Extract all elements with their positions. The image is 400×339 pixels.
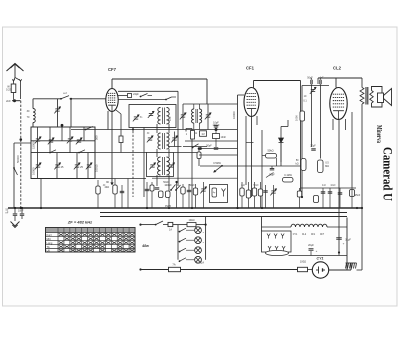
- svg-text:100Ω: 100Ω: [300, 260, 306, 264]
- wire det row: [199, 148, 238, 150]
- junction dot: [20, 138, 23, 141]
- svg-text:Kurz: Kurz: [47, 233, 53, 237]
- wire CF7 g2 tap: [118, 95, 128, 97]
- wire lamp top: [139, 224, 141, 226]
- cap 100pF: [155, 187, 160, 189]
- switch S3: [85, 129, 87, 131]
- wire T columns: [156, 124, 158, 133]
- wire lamp right col: [205, 217, 207, 260]
- svg-text:10pF: 10pF: [213, 121, 219, 124]
- pin CF7 g3: [111, 112, 113, 186]
- heater pair symbols top: [267, 234, 270, 239]
- svg-text:25nF: 25nF: [355, 194, 361, 197]
- resistor h15: [254, 182, 256, 208]
- wire CF7 g3 tap: [118, 99, 166, 101]
- svg-text:10nF: 10nF: [221, 136, 227, 139]
- wire lamp left col: [177, 225, 179, 260]
- svg-text:UK: UK: [47, 249, 51, 253]
- wire lamp top2: [173, 224, 187, 226]
- wire coil to box: [32, 123, 34, 128]
- cap 50pF drv: [310, 80, 312, 85]
- band switch dashed line: [132, 112, 134, 197]
- wire CL2 plate rail: [318, 77, 362, 79]
- heater chain row: [262, 226, 292, 228]
- fuse F1: [163, 224, 168, 226]
- svg-text:CF7: CF7: [108, 67, 117, 72]
- resistor o2b: [314, 196, 319, 203]
- box h12: [210, 185, 228, 203]
- variable capacitor C2d: [87, 164, 91, 166]
- svg-text:Camerad U: Camerad U: [381, 147, 396, 201]
- wire T1 top: [144, 107, 157, 109]
- svg-text:50000: 50000: [16, 155, 20, 163]
- switch S5: [192, 147, 194, 149]
- trimmer C t8: [207, 104, 209, 130]
- wire col 144: [143, 128, 145, 198]
- variable capacitor C1c: [68, 138, 72, 140]
- rail junction dots: [20, 207, 22, 209]
- lamp branch 1: [179, 231, 181, 233]
- variable capacitor C2a: [36, 164, 40, 166]
- svg-text:10015: 10015: [95, 164, 99, 172]
- junction 339-252: [338, 251, 340, 253]
- wire mid link: [95, 152, 147, 154]
- junction gl: [14, 207, 16, 209]
- wire CL2 plate: [335, 78, 337, 88]
- diode D1: [281, 126, 288, 128]
- wire AVC: [71, 129, 237, 131]
- wire box to rail: [40, 179, 42, 209]
- cap h17: [265, 185, 267, 208]
- rail third: [100, 216, 347, 218]
- svg-text:50nF: 50nF: [189, 185, 195, 187]
- ground rail main: [8, 207, 362, 209]
- tube CF7: [106, 89, 118, 112]
- svg-text:0.5MΩ: 0.5MΩ: [213, 162, 221, 165]
- trimmer C t5: [150, 164, 154, 166]
- lamp branch 2: [179, 241, 181, 243]
- resistor 10nF box: [215, 130, 217, 134]
- variable capacitor C1d: [77, 139, 81, 141]
- svg-text:31μF: 31μF: [345, 239, 351, 242]
- tuning box verticals: [37, 127, 39, 179]
- wire drv col2: [320, 84, 322, 158]
- pin CF1 3: [256, 116, 258, 125]
- svg-text:10nF: 10nF: [18, 210, 24, 213]
- switch S4: [175, 189, 177, 191]
- svg-text:15000: 15000: [32, 141, 36, 149]
- speaker LS1: [372, 87, 383, 108]
- wire rail drop left: [7, 207, 9, 209]
- svg-text:50nF: 50nF: [163, 181, 169, 184]
- wire col 169 ext: [168, 197, 170, 208]
- ground symbol GND1: [11, 222, 20, 227]
- IF transformer T1: [158, 108, 161, 125]
- svg-text:CF7: CF7: [320, 234, 325, 236]
- svg-text:10kΩ: 10kΩ: [189, 219, 195, 222]
- rail second: [100, 212, 347, 214]
- cap h9: [188, 184, 190, 208]
- resistor 50k: [266, 154, 277, 159]
- wire antenna split: [14, 78, 16, 84]
- pin CF7 aux: [116, 110, 121, 114]
- trimmer C t2: [134, 116, 138, 118]
- cap o1: [321, 191, 326, 193]
- wire mains: [139, 268, 141, 270]
- cap h5: [146, 182, 148, 208]
- resistor 0.5M: [318, 160, 324, 173]
- pot arrow: [311, 88, 315, 90]
- varcap T2 right: [174, 132, 176, 147]
- wire CF1 plate rail: [254, 80, 301, 82]
- ground symbol GND2 (chassis): [350, 263, 352, 270]
- cap 50pF out: [311, 148, 316, 150]
- svg-text:100: 100: [168, 116, 172, 121]
- wire CF7 plate up: [111, 79, 113, 89]
- wire out row: [301, 187, 357, 189]
- cap 10pF: [214, 125, 219, 127]
- switch S2: [13, 167, 15, 169]
- wire col 347 top: [346, 208, 348, 218]
- svg-text:CY1: CY1: [317, 257, 324, 261]
- svg-text:+: +: [316, 249, 318, 253]
- resistor o3: [350, 190, 355, 197]
- cap gl2: [21, 208, 23, 213]
- svg-text:Minerva: Minerva: [375, 125, 384, 143]
- component blob: [61, 124, 64, 127]
- svg-text:24pF: 24pF: [133, 93, 139, 96]
- arrow pin end: [111, 183, 114, 185]
- cap h19: [299, 188, 301, 208]
- resistor r2: [166, 191, 171, 198]
- wire osc link: [185, 140, 238, 142]
- heater box: [262, 231, 292, 252]
- varcap h18: [273, 185, 275, 208]
- svg-text:10000: 10000: [232, 111, 236, 119]
- IF transformer T3: [158, 157, 161, 175]
- cap h16: [260, 182, 262, 208]
- switch S6 volume: [221, 165, 223, 167]
- wire osc top: [183, 103, 238, 105]
- resistor h14: [248, 182, 250, 208]
- resistor 0.1M: [283, 178, 294, 183]
- trimmer C t3: [149, 112, 153, 114]
- svg-text:48w: 48w: [141, 244, 149, 248]
- svg-text:CL2: CL2: [333, 66, 342, 71]
- svg-text:CF1: CF1: [311, 234, 316, 236]
- svg-text:500: 500: [95, 135, 99, 140]
- resistor h13: [241, 182, 243, 208]
- svg-text:50pF: 50pF: [206, 144, 212, 147]
- antenna coil L1: [33, 109, 35, 123]
- svg-text:Mitt: Mitt: [47, 237, 51, 241]
- wire antenna down: [13, 93, 15, 100]
- antenna A1: [7, 64, 24, 72]
- resistor osc: [191, 131, 195, 140]
- wire plate rail CF7: [112, 78, 207, 80]
- wire grid branch: [70, 99, 72, 130]
- variable capacitor C2b: [55, 164, 59, 166]
- svg-text:CY1: CY1: [293, 234, 298, 236]
- varcap h11: [203, 182, 205, 208]
- fuse W0.25: [11, 84, 16, 93]
- svg-text:2nF: 2nF: [6, 99, 11, 103]
- svg-text:ZF = 482 kHz: ZF = 482 kHz: [67, 220, 92, 225]
- resistor h1: [97, 180, 99, 208]
- svg-text:0.25: 0.25: [6, 88, 12, 92]
- wire drv col1: [311, 84, 313, 147]
- switch on divider b: [79, 150, 85, 153]
- cap h3: [121, 185, 123, 208]
- frequency table: [46, 228, 136, 253]
- lamp branch 3: [179, 251, 181, 253]
- svg-text:4μF: 4μF: [241, 185, 246, 187]
- svg-text:MΩ: MΩ: [325, 165, 329, 168]
- cap o2c: [338, 192, 343, 194]
- ballast ellipse: [266, 250, 289, 255]
- svg-text:50kΩ: 50kΩ: [267, 149, 273, 153]
- tuning box mid rail: [31, 152, 95, 154]
- wire col 352: [351, 112, 353, 188]
- svg-text:+0.02A: +0.02A: [196, 262, 204, 265]
- wire col 199: [198, 148, 200, 166]
- svg-text:+: +: [343, 242, 345, 246]
- svg-text:50pF: 50pF: [307, 77, 313, 80]
- resistor 50kOut: [301, 159, 306, 171]
- wire psu mid: [289, 255, 348, 257]
- osc transformer T4: [192, 109, 194, 123]
- cap 4nF drv: [319, 80, 321, 85]
- pin CL2 2: [338, 120, 340, 253]
- heater pair symbols bottom: [268, 246, 271, 251]
- wire psu right col: [346, 218, 348, 270]
- tube CF1: [244, 88, 259, 117]
- pin CF7 k: [107, 111, 109, 130]
- speaker coil primary: [361, 78, 363, 88]
- wire long AF: [200, 165, 301, 167]
- resistor 1M: [200, 131, 207, 137]
- wire comp col: [215, 139, 217, 148]
- fuse 7A: [169, 267, 181, 271]
- tuning box outline: [31, 127, 95, 179]
- wire corner left: [32, 99, 34, 109]
- svg-text:7A: 7A: [172, 263, 175, 267]
- svg-text:TA: TA: [47, 245, 50, 249]
- wire CF1 plate up: [253, 81, 255, 88]
- variable capacitor C1b: [49, 139, 53, 141]
- wire input to CF7 grid: [70, 98, 106, 100]
- svg-text:a 2: a 2: [63, 92, 67, 95]
- svg-text:4nF: 4nF: [319, 77, 324, 80]
- IF transformer T2: [158, 133, 161, 149]
- junction dot 357: [356, 207, 358, 209]
- variable capacitor C1a: [36, 138, 40, 140]
- wire to band switch: [20, 101, 22, 208]
- pin CL2 3: [345, 119, 347, 130]
- wire box bottom ext: [31, 178, 146, 180]
- IF transformer T1 box: [129, 105, 176, 128]
- pin CL2 1: [332, 119, 334, 130]
- variable capacitor C2c: [75, 164, 79, 166]
- svg-text:CF1: CF1: [246, 66, 255, 71]
- pin CF1 1: [245, 116, 247, 185]
- cap gl1: [14, 208, 16, 213]
- wire CF1 grid col: [237, 95, 239, 208]
- wire osc top corner: [206, 79, 208, 104]
- wire box left tap: [14, 142, 31, 144]
- tube CL2: [330, 88, 347, 120]
- trimmer C t4: [148, 137, 152, 139]
- switch on divider a: [50, 150, 56, 153]
- trimmer C t6: [169, 164, 173, 166]
- resistor r1: [159, 191, 164, 198]
- cap det1: [214, 147, 219, 149]
- switch S8: [155, 224, 157, 226]
- resistor h8: [182, 184, 184, 208]
- svg-text:1000: 1000: [295, 115, 299, 121]
- cap 31uF: [336, 237, 342, 239]
- wire det col: [261, 130, 263, 208]
- lamp branch 4: [179, 260, 181, 262]
- transformer core: [365, 87, 367, 105]
- svg-text:50nF: 50nF: [253, 185, 259, 187]
- wire col 300: [300, 81, 302, 198]
- trimmer C t7: [182, 104, 184, 130]
- wire h7: [176, 182, 178, 208]
- resistor h10: [195, 184, 197, 208]
- cap o2: [328, 191, 333, 193]
- IF box outline: [147, 153, 174, 177]
- svg-text:4nF: 4nF: [322, 185, 327, 187]
- wire drv top link: [302, 85, 329, 87]
- svg-text:CL2: CL2: [302, 234, 307, 236]
- svg-text:10000: 10000: [32, 167, 36, 175]
- resistor 1000 drv: [300, 111, 305, 121]
- wire heater left: [261, 217, 263, 232]
- switch S7: [170, 189, 172, 191]
- cap 50pF det: [280, 143, 282, 167]
- wire col 192: [191, 129, 193, 209]
- svg-text:1A: 1A: [169, 229, 172, 232]
- resistor 10k: [187, 223, 196, 227]
- cap h6: [151, 182, 153, 208]
- svg-text:10nF: 10nF: [330, 185, 336, 187]
- svg-text:20μF: 20μF: [310, 145, 316, 148]
- wire CY1 right: [329, 269, 351, 271]
- svg-text:20μF: 20μF: [308, 244, 314, 247]
- switch S1: [60, 98, 62, 100]
- pin CF1 2: [251, 117, 253, 198]
- wire h4: [127, 179, 129, 209]
- svg-text:1M: 1M: [201, 133, 204, 136]
- resistor h2: [114, 179, 116, 209]
- svg-text:Lang: Lang: [47, 241, 53, 245]
- wire screen rail CF7: [118, 90, 178, 92]
- trimmer C_t1: [57, 99, 59, 127]
- svg-text:0.1MΩ: 0.1MΩ: [284, 174, 292, 177]
- wire input top: [33, 98, 61, 100]
- svg-text:kΩ: kΩ: [296, 163, 299, 166]
- speaker coil secondary: [370, 91, 374, 104]
- tube CY1: [312, 262, 328, 278]
